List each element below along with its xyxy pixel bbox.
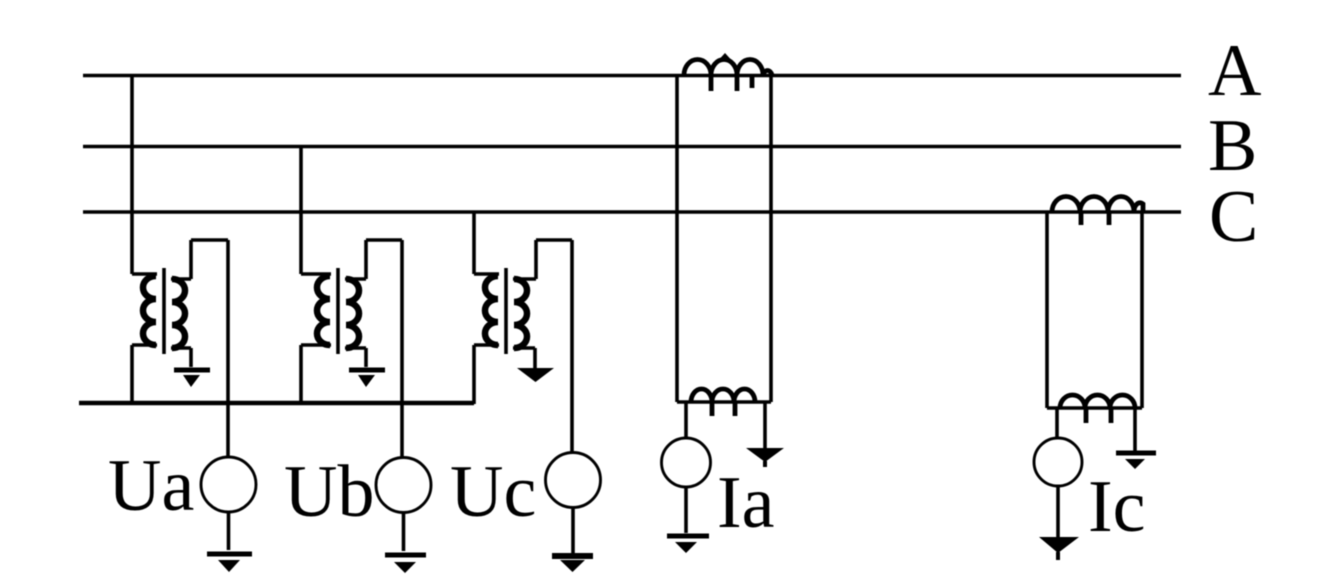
meter Ic — [1034, 438, 1082, 486]
wire meter Ua to ground — [227, 512, 231, 550]
wire CT1 to meter Ia — [684, 402, 688, 438]
meter Ub — [376, 458, 431, 513]
ground below meter Ic — [1039, 537, 1079, 560]
current transformer CT1 primary coil on bus A — [684, 59, 772, 75]
CT1 primary coil loop tails — [711, 75, 752, 91]
wire CT1 secondary right to ground — [763, 402, 767, 448]
wire CT1 left side — [675, 75, 679, 402]
svg-text:B: B — [1208, 105, 1257, 187]
wire meter Uc to ground — [571, 508, 575, 553]
svg-text:C: C — [1209, 176, 1258, 258]
voltage transformer PT2 — [301, 240, 402, 404]
ground below meter Ua — [207, 554, 252, 572]
voltage transformer PT3 — [474, 240, 572, 404]
ground PT3 secondary — [513, 348, 554, 382]
wire CT2 secondary right to ground — [1133, 408, 1137, 451]
ground PT2 secondary — [345, 348, 385, 387]
wire CT1 secondary bottom — [677, 400, 771, 404]
current transformer CT2 secondary coil — [1060, 395, 1135, 423]
ground below meter Ia — [667, 536, 709, 553]
ground below meter Uc — [552, 553, 593, 559]
svg-text:Ic: Ic — [1088, 466, 1146, 548]
wire meter Ub to ground — [402, 513, 406, 551]
ground PT1 secondary — [171, 348, 210, 387]
wire phase C drop to PT3 — [472, 212, 476, 274]
CT1 primary coil middle peak — [720, 56, 730, 62]
wire CT2 secondary bottom — [1047, 406, 1142, 410]
bus line A — [83, 74, 1181, 78]
wire PT3 secondary to meter Uc — [570, 240, 574, 453]
svg-text:Ia: Ia — [717, 462, 775, 544]
current transformer CT2 primary coil on bus C — [1052, 196, 1143, 212]
wire PT2 secondary to meter Ub — [400, 240, 404, 457]
ground CT2 secondary — [1116, 453, 1156, 469]
wire meter Ic to ground — [1056, 486, 1060, 537]
svg-text:Uc: Uc — [450, 451, 536, 533]
wire CT1 right side — [769, 75, 773, 402]
meter Ua — [201, 457, 256, 512]
wire CT2 left side — [1045, 212, 1049, 408]
wire CT2 right side — [1140, 212, 1144, 408]
CT2 primary coil loop tails — [1081, 212, 1109, 225]
wire CT2 to meter Ic — [1055, 408, 1059, 438]
svg-text:A: A — [1208, 30, 1261, 112]
wire phase B drop to PT2 — [299, 146, 303, 274]
bus line C — [83, 210, 1181, 214]
bus line B — [83, 145, 1181, 149]
svg-text:Ub: Ub — [284, 451, 374, 533]
meter Uc — [546, 453, 601, 508]
wire phase A drop to PT1 — [130, 75, 134, 274]
ground below meter Ub — [385, 555, 426, 573]
voltage transformer PT1 — [132, 240, 228, 404]
svg-text:Ua: Ua — [108, 445, 194, 527]
meter Ia — [662, 438, 711, 487]
current transformer CT1 secondary coil — [691, 389, 755, 416]
wire PT1 secondary to meter Ua — [226, 240, 230, 457]
wire PT primary common (neutral) — [79, 401, 474, 406]
wire meter Ia to ground — [684, 487, 688, 533]
ground CT1 secondary — [746, 448, 784, 467]
